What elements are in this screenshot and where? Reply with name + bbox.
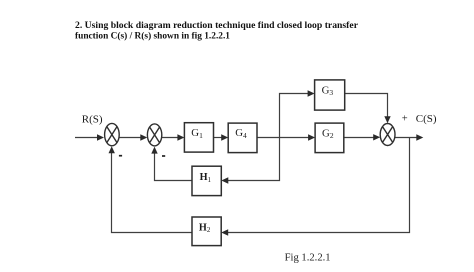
arrowhead into G4 [221,134,228,140]
summing junction S3 [380,124,395,146]
arrowhead into H1 [221,177,228,183]
arrowhead into G1 [177,134,184,140]
block H2 [192,217,221,246]
arrowhead into G3 [308,90,315,96]
arrowhead into H2 [221,229,228,235]
wire H1 to S2 [155,151,193,181]
arrowhead into S2 bottom [151,147,157,154]
wire branch up to G3 [280,94,312,138]
minus sign at S2 [162,155,165,157]
wire S1 to S2 [120,137,144,139]
wire output C(S) [395,137,420,139]
block G1 [184,123,213,152]
svg-text:Fig 1.2.2.1: Fig 1.2.2.1 [285,251,331,263]
svg-text:+: + [402,114,408,125]
wire G4 to G2 [257,137,312,139]
wire G2 to S3 [344,137,377,139]
arrowhead into S1 [97,134,104,140]
wire G3 to S3 [345,94,388,120]
wire S2 to G1 [162,137,181,139]
block G3 [315,80,345,110]
wire input R(S) to S1 [75,137,101,139]
arrowhead into G2 [308,134,315,140]
summing junction S2 [147,124,161,146]
wire G1 to G4 [214,137,225,139]
svg-text:2. Using block diagram reducti: 2. Using block diagram reduction techniq… [75,20,359,31]
svg-text:function C(s) / R(s) shown in: function C(s) / R(s) shown in fig 1.2.2.… [75,31,230,42]
summing junction S1 [105,123,120,145]
arrowhead into S2 [140,134,147,140]
block G4 [228,123,257,153]
wire branch down to H1 [225,138,280,181]
arrowhead into S3 top [384,116,390,123]
wire output takeoff down to H2 [225,138,410,233]
arrowhead output C(S) [416,134,423,140]
svg-text:C(S): C(S) [416,113,437,125]
svg-text:R(S): R(S) [82,113,103,125]
arrowhead into S3 left [373,134,380,140]
block H1 [192,166,221,195]
wire H2 to S1 [112,150,193,233]
arrowhead into S1 bottom [109,146,115,153]
block G2 [315,123,344,153]
minus sign at S1 [119,155,122,157]
